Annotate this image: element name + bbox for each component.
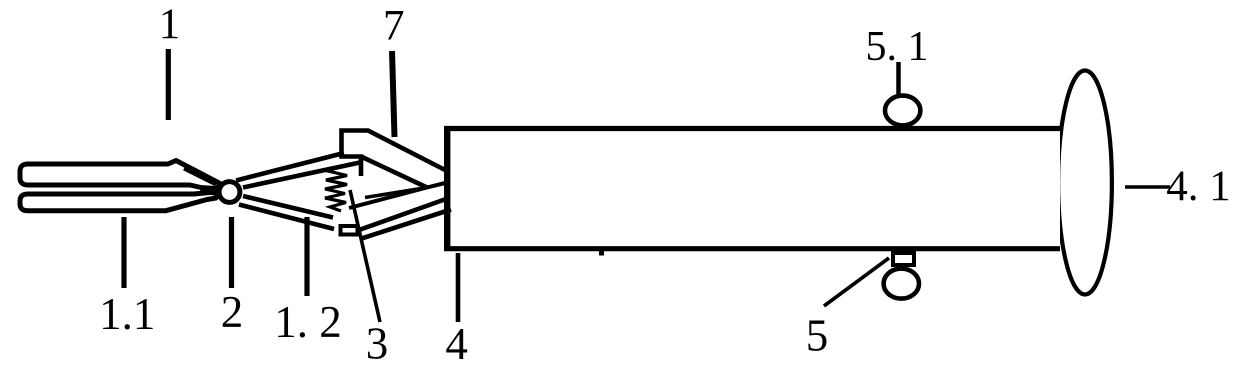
top link 7 hook	[342, 131, 370, 177]
leader line 1	[166, 49, 171, 120]
barrel left edge (thick)	[444, 126, 450, 251]
speck on barrel bottom edge	[599, 251, 604, 256]
bottom link top edge	[359, 199, 446, 230]
top link 7 top edge	[368, 131, 449, 173]
leader line 4.1	[1125, 185, 1170, 188]
svg-text:1.1: 1.1	[99, 289, 155, 339]
barrel body fill (hides left arc of ellipse)	[444, 126, 1060, 251]
leader line 5	[824, 258, 889, 306]
inner rising line to barrel	[349, 183, 447, 209]
lower handle arm inner edge	[243, 196, 333, 218]
leader line 4	[456, 253, 461, 322]
short inner rising line	[365, 189, 421, 198]
jaw tips dark wedge at pivot	[199, 185, 225, 197]
pivot circle 2	[219, 182, 240, 203]
knob 5.1 top circle	[885, 96, 920, 126]
leader line 5.1	[896, 62, 901, 94]
leader line 2	[229, 217, 234, 288]
lower handle arm outer edge	[239, 205, 334, 230]
bottom link bottom edge	[360, 210, 451, 240]
svg-text:1. 2: 1. 2	[274, 297, 342, 347]
leader line 1.2	[304, 217, 309, 296]
jaw upper bar 1.1	[20, 161, 221, 191]
leader line 1.1	[121, 217, 126, 288]
barrel top edge	[444, 126, 1060, 131]
jaw lower bar	[20, 192, 220, 211]
jaw upper tip inner line	[184, 169, 216, 185]
svg-text:5. 1: 5. 1	[866, 24, 929, 70]
upper handle arm inner edge	[243, 163, 360, 188]
knob 5 square	[893, 253, 914, 265]
svg-text:4. 1: 4. 1	[1166, 163, 1231, 210]
leader line 3	[350, 190, 380, 322]
svg-text:7: 7	[383, 3, 405, 50]
svg-text:2: 2	[221, 287, 244, 337]
spring 3	[325, 167, 347, 212]
end cap ellipse 4.1	[1058, 71, 1112, 295]
svg-text:1: 1	[159, 1, 181, 48]
knob 5 bottom circle	[884, 269, 919, 299]
bottom bracket square	[341, 226, 358, 235]
svg-text:3: 3	[366, 319, 389, 369]
svg-text:5: 5	[806, 311, 829, 361]
barrel bottom edge	[444, 246, 1060, 251]
upper handle arm outer edge	[236, 153, 344, 181]
top link 7 bottom edge	[361, 157, 427, 188]
leader line 7	[392, 51, 395, 137]
svg-text:4: 4	[445, 319, 468, 369]
